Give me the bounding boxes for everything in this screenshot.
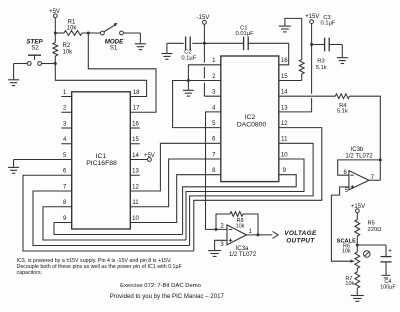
- wire -15V rail to C1/C2 junction: [203, 24, 205, 43]
- IC1 pin 5 label: [63, 153, 67, 159]
- svg-text:2: 2: [212, 74, 216, 80]
- svg-text:PIC16F88: PIC16F88: [86, 160, 117, 167]
- IC2 pin 11 label: [281, 137, 288, 143]
- svg-text:9: 9: [63, 216, 67, 222]
- power terminal +15V (top right): [305, 14, 319, 23]
- IC1 pin 11 label: [132, 200, 139, 206]
- wire +15V rail (with crossover gap at R4 wire): [311, 24, 313, 112]
- wire junction to C4: [357, 245, 386, 256]
- svg-text:11: 11: [132, 200, 139, 206]
- wire IC2 pin14 to R4: [279, 95, 336, 97]
- svg-text:3: 3: [212, 90, 216, 96]
- ground (IC3a non-inverting input): [208, 251, 221, 257]
- wire R4 to IC3b output node: [349, 96, 380, 180]
- switch S1 MODE (SPST): [101, 23, 125, 52]
- svg-text:Provided to you by the PIC Man: Provided to you by the PIC Maniac – 2017: [110, 293, 225, 300]
- svg-text:10k: 10k: [63, 49, 74, 55]
- svg-text:5.1k: 5.1k: [337, 109, 348, 115]
- svg-text:16: 16: [132, 121, 139, 127]
- capacitor C1 0.01µF: [204, 25, 288, 50]
- svg-text:R2: R2: [63, 43, 71, 49]
- IC1 pin 13 stub: [130, 169, 140, 176]
- IC2 pin 6 label: [212, 137, 216, 143]
- svg-text:10k: 10k: [236, 223, 245, 229]
- svg-text:OUTPUT: OUTPUT: [286, 238, 315, 245]
- svg-text:0.01µF: 0.01µF: [236, 31, 255, 37]
- IC1 pin 1 stub: [61, 90, 71, 97]
- svg-text:12: 12: [281, 121, 288, 127]
- capacitor C2 0.1µF: [167, 37, 205, 62]
- wire IC1 pin11 to IC2 pin7: [130, 159, 220, 207]
- wire -15V rail to IC2 pin3 (with crossover gaps): [203, 43, 205, 96]
- svg-text:3: 3: [63, 121, 67, 127]
- node junction R2/STEP: [54, 62, 57, 65]
- IC2 pin 2 label: [212, 74, 216, 80]
- power terminal +5V (IC1 pin14): [144, 153, 155, 162]
- svg-text:15: 15: [132, 137, 139, 143]
- wire IC2 pin13 to +15V rail: [279, 111, 312, 113]
- IC2 pin 1 label: [212, 58, 216, 64]
- wire IC2 pin5 to ground junction: [173, 81, 221, 128]
- wire IC3a pin3 to ground: [215, 240, 227, 250]
- svg-text:6: 6: [212, 137, 216, 143]
- svg-text:5: 5: [63, 153, 67, 159]
- svg-text:MODE: MODE: [105, 38, 124, 45]
- wire C1 to IC2 pin16: [279, 43, 288, 65]
- resistor R7 10k: [345, 268, 359, 295]
- wire C2 to ground: [166, 43, 168, 53]
- svg-text:DAC0800: DAC0800: [237, 121, 267, 128]
- resistor R2 10k: [53, 33, 73, 64]
- node junction -15V/C1/C2: [203, 42, 206, 45]
- svg-text:5: 5: [212, 121, 216, 127]
- resistor R1 10k: [64, 20, 82, 36]
- arrow VOLTAGE OUTPUT: [273, 230, 318, 245]
- svg-text:+: +: [388, 247, 392, 254]
- svg-text:7: 7: [63, 184, 67, 190]
- svg-text:IC3, is powered by a ±15V supp: IC3, is powered by a ±15V supply. Pin 4 …: [17, 258, 172, 264]
- wire IC3b feedback loop: [338, 160, 381, 175]
- switch S2 STEP (pushbutton): [26, 38, 43, 65]
- op-amp IC3b 1/2 TL072 body: [345, 146, 373, 190]
- svg-text:12: 12: [132, 184, 139, 190]
- IC2 pin 12 label: [281, 121, 288, 127]
- svg-text:S2: S2: [31, 46, 39, 52]
- ground (MODE S1): [135, 44, 146, 50]
- wire IC1 pin8 harness (to IC2 pin10): [43, 207, 186, 240]
- svg-text:13: 13: [281, 105, 288, 111]
- credit text PIC Maniac: [110, 293, 225, 300]
- IC1 pin 4 stub: [61, 137, 71, 144]
- svg-text:17: 17: [133, 106, 140, 112]
- svg-text:1: 1: [63, 90, 67, 96]
- wire R1 to MODE junction: [82, 32, 103, 34]
- IC1 pin 16 stub: [130, 121, 140, 128]
- svg-text:6: 6: [63, 169, 67, 175]
- resistor R5 220Ω: [355, 213, 382, 245]
- pot adjust symbol (circle-slash): [364, 251, 371, 258]
- svg-text:11: 11: [281, 137, 288, 143]
- svg-text:R5: R5: [368, 221, 375, 227]
- potentiometer R6 10k SCALE: [337, 238, 360, 268]
- svg-text:100µF: 100µF: [380, 285, 396, 291]
- wire IC1 pin7 harness (to IC2 pin11): [33, 191, 190, 246]
- resistor R8 10k feedback: [216, 212, 258, 235]
- op IC1 PIC16F88 body: [72, 92, 131, 229]
- IC1 pin 10 label: [132, 216, 139, 222]
- svg-text:9: 9: [283, 168, 287, 174]
- svg-text:+5V: +5V: [144, 153, 155, 159]
- svg-text:+5V: +5V: [49, 9, 60, 15]
- svg-text:10: 10: [281, 152, 288, 158]
- power terminal +15V (scale): [351, 204, 365, 213]
- svg-text:10k: 10k: [67, 26, 78, 32]
- svg-text:1/2 TL072: 1/2 TL072: [229, 251, 257, 258]
- wire +5V rail to R1/R2 junction: [54, 18, 56, 33]
- IC2 pin 4 label: [212, 105, 216, 111]
- capacitor C4 100µF electrolytic: [380, 247, 396, 290]
- svg-text:0.1µF: 0.1µF: [181, 55, 196, 61]
- node junction R1/MODE/pin17 wire: [87, 32, 90, 35]
- IC1 pin 7 label: [63, 184, 67, 190]
- ground (R3 / VREF-): [279, 26, 291, 32]
- wire IC2 pin4 IOUT to IC3a input: [206, 112, 228, 229]
- IC1 pin 8 label: [63, 200, 67, 206]
- IC3a pin 1 label: [249, 229, 253, 235]
- ground (C2): [161, 54, 172, 60]
- wire IC2 pin3 stub to -15V rail: [204, 95, 220, 97]
- IC2 pin 13 label: [281, 105, 288, 111]
- IC2 pin 9 label: [283, 168, 287, 174]
- svg-text:0.1µF: 0.1µF: [321, 21, 336, 27]
- svg-text:3: 3: [220, 242, 224, 248]
- IC3b pin 7 label: [371, 175, 375, 181]
- svg-text:+15V: +15V: [305, 14, 319, 20]
- power terminal +5V (top left): [49, 9, 60, 18]
- svg-text:14: 14: [132, 153, 139, 159]
- svg-text:1: 1: [249, 229, 253, 235]
- IC2 pin 5 label: [212, 121, 216, 127]
- IC2 pin 15 label: [281, 74, 288, 80]
- IC1 pin 17 label: [133, 106, 140, 112]
- wire IC1 pin5 to ground: [14, 160, 72, 167]
- svg-text:5: 5: [345, 188, 349, 194]
- svg-text:4: 4: [63, 137, 67, 143]
- wire IC2 pin1 to ground junction: [188, 65, 220, 81]
- IC3a pin 3 label: [220, 242, 224, 248]
- wire IC1 pin9 harness (to IC2 pin9): [54, 223, 183, 235]
- op-amp IC3a 1/2 TL072 body: [227, 225, 257, 258]
- wire junction to R1: [55, 32, 64, 34]
- IC2 pin 3 label: [212, 90, 216, 96]
- wire STEP right terminal to R2 junction: [42, 63, 56, 65]
- IC2 pin 10 label: [281, 152, 288, 158]
- svg-text:2: 2: [220, 223, 224, 229]
- ground (IC2 pin1/2): [183, 90, 194, 96]
- wire IC2 pin11 harness (to IC1 pin7): [190, 143, 314, 245]
- node junction IC3a output: [257, 233, 260, 236]
- IC1 pin 3 stub: [61, 121, 71, 128]
- svg-text:Decouple both of these pins as: Decouple both of these pins as well as t…: [17, 264, 183, 270]
- svg-text:1/2 TL072: 1/2 TL072: [345, 152, 373, 159]
- wire IC3a output to VOLTAGE OUTPUT arrow: [246, 234, 272, 236]
- wire C3 to ground: [341, 45, 343, 58]
- node junction +15V/C3: [310, 43, 313, 46]
- wire ground junction stem: [187, 81, 189, 90]
- svg-text:220Ω: 220Ω: [368, 227, 383, 233]
- IC2 pin 16 label: [281, 58, 288, 64]
- IC3b pin 5 label: [345, 188, 349, 194]
- node junction IC3b feedback: [379, 158, 382, 161]
- svg-text:2: 2: [63, 106, 67, 112]
- svg-text:STEP: STEP: [26, 38, 43, 45]
- svg-text:13: 13: [132, 169, 139, 175]
- svg-text:14: 14: [281, 90, 288, 96]
- IC1 pin 15 stub: [130, 137, 140, 144]
- power terminal -15V: [197, 15, 210, 24]
- capacitor C3 0.1µF: [312, 15, 343, 52]
- svg-text:10: 10: [132, 216, 139, 222]
- wire IC1 pin6 harness (to IC2 pin12): [23, 175, 194, 251]
- wire IC1 pin12 to IC2 pin6: [130, 143, 220, 191]
- svg-text:R3: R3: [317, 59, 324, 65]
- resistor R3 5.1k: [299, 59, 326, 74]
- wire IC2 pin15 to R3: [279, 74, 302, 81]
- svg-text:IC2: IC2: [245, 114, 256, 121]
- svg-text:IC1: IC1: [96, 153, 107, 160]
- IC1 pin 12 label: [132, 184, 139, 190]
- svg-text:VOLTAGE: VOLTAGE: [284, 230, 317, 237]
- ground (C3): [337, 58, 348, 64]
- wire IC2 pin10 harness (to IC1 pin8): [186, 159, 304, 240]
- ground (STEP): [8, 80, 19, 86]
- op IC2 DAC0800 body: [221, 56, 279, 182]
- IC2 pin 8 label: [212, 168, 216, 174]
- IC1 pin 9 label: [63, 216, 67, 222]
- IC1 pin 18 label: [133, 90, 140, 96]
- note text paragraph: [17, 258, 183, 276]
- svg-text:1: 1: [212, 58, 216, 64]
- pot wiper arrowhead: [351, 260, 355, 263]
- wire MODE S1 right terminal to ground: [123, 33, 140, 43]
- wire IC2 pin9 harness (to IC1 pin9): [183, 175, 297, 235]
- node junction R5/R6/C4: [356, 244, 359, 247]
- wire IC2 pin2 stub: [188, 80, 220, 82]
- node junction IC3a inverting input: [215, 228, 218, 231]
- IC3b pin 6 label: [344, 170, 348, 176]
- svg-text:capacitors.: capacitors.: [17, 270, 43, 276]
- IC2 pin 7 label: [212, 152, 216, 158]
- svg-text:16: 16: [281, 58, 288, 64]
- ground (IC1 pin5 Vss): [8, 167, 19, 173]
- wire IC3b pin5 to scale pot wiper: [331, 187, 352, 261]
- svg-text:7: 7: [212, 152, 216, 158]
- wire IC1 pin10 to IC2 pin8: [130, 175, 220, 223]
- IC2 pin 14 label: [281, 90, 288, 96]
- IC1 pin 6 label: [63, 169, 67, 175]
- wire R3 to top ground: [285, 18, 302, 59]
- node junction IC2 pin1/pin2/pin5 ground: [187, 79, 190, 82]
- IC3a pin 2 label: [220, 223, 224, 229]
- svg-text:-15V: -15V: [197, 15, 210, 21]
- IC1 pin 14 stub to +5V: [130, 153, 147, 160]
- wire net MODE junction to IC1 pin17: [88, 33, 156, 112]
- ground (C4): [382, 275, 391, 278]
- ground (R7): [351, 296, 364, 302]
- svg-text:10k: 10k: [342, 249, 351, 255]
- svg-text:Exercise 072: 7-Bit DAC Demo: Exercise 072: 7-Bit DAC Demo: [120, 283, 202, 289]
- svg-text:10k: 10k: [345, 281, 354, 287]
- svg-text:S1: S1: [110, 46, 118, 52]
- svg-text:4: 4: [212, 105, 216, 111]
- wire IC3b output: [369, 179, 380, 181]
- svg-text:15: 15: [281, 74, 288, 80]
- wire IC2 pin12 harness (to IC1 pin6): [194, 128, 322, 251]
- IC1 pin 2 stub: [61, 106, 71, 113]
- svg-text:+15V: +15V: [351, 204, 365, 210]
- wire net STEP/R2 to IC1 pin18: [55, 64, 146, 97]
- node junction +5V/R1/R2: [54, 32, 57, 35]
- title text Exercise 072: [120, 283, 202, 289]
- resistor R4 5.1k: [335, 94, 349, 115]
- svg-text:18: 18: [133, 90, 140, 96]
- svg-text:8: 8: [63, 200, 67, 206]
- svg-text:5.1k: 5.1k: [316, 65, 327, 71]
- svg-text:8: 8: [212, 168, 216, 174]
- wire STEP left terminal to ground: [14, 64, 28, 80]
